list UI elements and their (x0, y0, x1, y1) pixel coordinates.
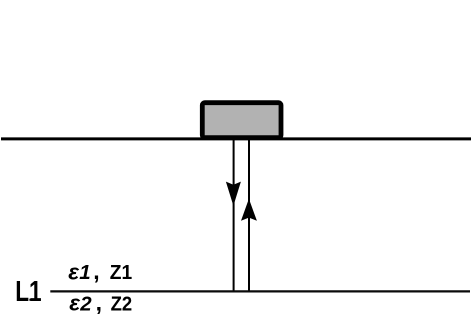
svg-text:ε: ε (69, 291, 80, 316)
node label epsilon1, Z1 (above interface) (68, 258, 132, 284)
arrowhead: downward (transmitted wave) (226, 182, 241, 206)
wire: reflected ray (right vertical line) (248, 140, 250, 291)
foot serif of digit 1 in L1 (29, 299, 40, 301)
svg-text:Z1: Z1 (110, 262, 132, 284)
svg-text:2: 2 (79, 293, 92, 316)
antenna box (transducer on surface) (202, 103, 281, 138)
svg-text:,: , (93, 258, 99, 284)
wire: transmitted ray (left vertical line) (233, 140, 235, 291)
svg-text:Z2: Z2 (111, 294, 133, 316)
svg-text:1: 1 (79, 261, 90, 284)
svg-text:ε: ε (68, 259, 79, 284)
arrowhead: upward (reflected wave) (241, 199, 257, 221)
wire: layer interface line L1 (fraction bar) (50, 290, 470, 292)
node label epsilon2, Z2 (below interface) (69, 290, 132, 316)
svg-text:,: , (96, 290, 102, 316)
svg-text:L1: L1 (15, 276, 41, 308)
wire: ground surface line (top interface) (1, 137, 471, 140)
